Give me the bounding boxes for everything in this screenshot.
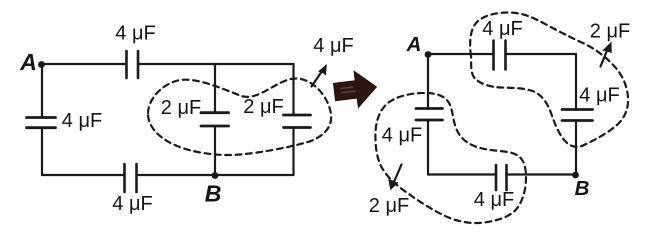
- svg-text:4 μF: 4 μF: [112, 193, 152, 215]
- svg-text:B: B: [575, 177, 590, 200]
- pointer arrow to 4uF equivalent label: [312, 69, 324, 87]
- capacitor C3 4uF bottom: [125, 164, 137, 192]
- svg-text:4 μF: 4 μF: [382, 125, 422, 147]
- svg-text:A: A: [406, 33, 422, 56]
- svg-text:2 μF: 2 μF: [590, 21, 630, 43]
- wire top-left (A to C6): [430, 53, 494, 55]
- svg-text:4 μF: 4 μF: [313, 35, 353, 57]
- wire right branch upper (top-right corner down to C5): [292, 64, 294, 115]
- wire top-left (A to C1): [44, 63, 126, 65]
- node B (right circuit): [572, 172, 579, 179]
- dashed loop around C6 and C9 (equivalent 2uF): [470, 13, 628, 147]
- svg-text:2 μF: 2 μF: [161, 97, 201, 119]
- capacitor C5 2uF right: [284, 115, 311, 128]
- wire bottom (C3 to bottom-right corner): [137, 174, 294, 176]
- wire bottom-left (corner to C3): [42, 174, 125, 176]
- wire right lower (C9 down to node B): [575, 121, 577, 175]
- node B: [212, 172, 219, 179]
- wire top (C1 to top-right corner): [138, 63, 294, 65]
- node A: [38, 61, 45, 68]
- svg-text:4 μF: 4 μF: [115, 23, 155, 45]
- dashed loop around C4 and C5 (equivalent 4uF): [148, 78, 331, 155]
- pointer arrow to 2uF equivalent label (bottom left): [394, 165, 402, 184]
- svg-text:4 μF: 4 μF: [482, 18, 522, 40]
- svg-text:4 μF: 4 μF: [62, 110, 102, 132]
- wire left lower (C7 to bottom-left corner): [427, 120, 429, 175]
- wire bottom-left (corner to C8): [428, 173, 496, 175]
- wire bottom (C8 to node B): [507, 173, 575, 175]
- dashed loop around C7 and C8 (equivalent 2uF): [375, 93, 526, 223]
- svg-text:B: B: [205, 181, 222, 207]
- capacitor C1 4uF top: [127, 51, 139, 78]
- svg-text:2 μF: 2 μF: [369, 195, 409, 217]
- wire left lower (C2 to bottom-left corner): [41, 128, 43, 175]
- node A (right circuit): [425, 51, 432, 58]
- svg-text:4 μF: 4 μF: [579, 85, 619, 107]
- svg-text:A: A: [19, 49, 37, 75]
- pointer arrow to 2uF equivalent label (top right): [601, 47, 609, 67]
- wire middle branch lower (C4 down to node B): [214, 126, 216, 175]
- svg-text:4 μF: 4 μF: [474, 189, 514, 211]
- wire middle branch upper (top wire down to C4): [214, 64, 216, 112]
- capacitor C6 4uF top: [494, 41, 506, 70]
- capacitor C7 4uF left: [416, 109, 443, 121]
- wire right branch lower (C5 down to bottom wire): [292, 128, 294, 176]
- wire top (C6 to top-right corner): [506, 53, 577, 55]
- svg-text:2 μF: 2 μF: [243, 96, 283, 118]
- wire left (A down to C2): [41, 64, 43, 117]
- wire left (A down to C7): [427, 57, 429, 108]
- wire right (top-right corner down to C9): [575, 54, 577, 109]
- capacitor C8 4uF bottom: [496, 165, 507, 190]
- capacitor C2 4uF left: [27, 118, 56, 128]
- big transform arrow: [334, 72, 376, 107]
- capacitor C9 4uF right: [562, 110, 593, 121]
- capacitor C4 2uF middle: [201, 113, 229, 126]
